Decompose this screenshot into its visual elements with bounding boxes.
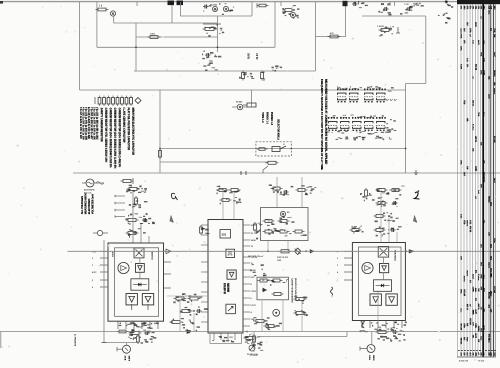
electrolytic below U3 xyxy=(367,345,375,353)
handwritten mark 2 xyxy=(415,191,420,200)
IC U3 outer box xyxy=(352,243,405,321)
cluster feed x302 xyxy=(301,177,303,208)
sidebar right edge rule xyxy=(494,4,496,357)
svg-text:mains: mains xyxy=(463,276,465,283)
IC U1 inner box xyxy=(115,248,159,316)
cluster above IC2 b xyxy=(220,199,223,201)
U2 pin stubs bottom xyxy=(213,333,215,340)
transistor in bias box xyxy=(280,211,285,216)
block C right edge xyxy=(251,2,253,16)
svg-text:BC549: BC549 xyxy=(236,101,243,104)
wire vertical x405 xyxy=(405,90,407,173)
IC3 upper cluster a xyxy=(350,229,353,231)
component left of bias box xyxy=(254,222,256,224)
svg-text:SELECTOR KNOB: SELECTOR KNOB xyxy=(277,119,280,140)
lower return line y337 xyxy=(264,336,347,338)
svg-text:AM 1k: AM 1k xyxy=(466,304,469,311)
svg-text:2 1x 220 1x 27R 1x 330 1x 10K: 2 1x 220 1x 27R 1x 330 1x 10K xyxy=(93,107,95,140)
svg-text:5%: 5% xyxy=(466,64,468,67)
U1 internal wire d xyxy=(147,304,149,310)
svg-text:CARBON RESISTOR STD. SERIES 4.: CARBON RESISTOR STD. SERIES 4.E01W 10% xyxy=(104,108,107,163)
svg-text:3362: 3362 xyxy=(150,33,156,35)
output triangle U3 left xyxy=(370,294,381,305)
stub x264 y336 xyxy=(258,336,264,338)
junction dots y47 xyxy=(135,46,137,48)
lower return rise x347 xyxy=(346,332,348,337)
svg-text:14 06: 14 06 xyxy=(251,239,257,242)
svg-text:1W: 1W xyxy=(477,339,479,342)
feed wire into IC3 top c xyxy=(396,232,398,243)
svg-text:TDA2611: TDA2611 xyxy=(151,251,154,261)
mid feed wire b xyxy=(193,313,195,332)
components below U3 xyxy=(376,331,379,333)
svg-text:FREQUENCY ADJUSTED AT FACTORY: FREQUENCY ADJUSTED AT FACTORY DO NOT DIS… xyxy=(320,79,324,170)
pin stubs into IC1 left xyxy=(115,195,125,197)
svg-text:220u: 220u xyxy=(469,28,471,33)
svg-text:dial: dial xyxy=(482,40,484,44)
left page edge line xyxy=(0,332,2,349)
components below U1 xyxy=(129,332,132,334)
bias box feed b xyxy=(287,241,289,252)
resistor right b xyxy=(294,312,297,314)
audio bus y148 xyxy=(160,148,405,150)
svg-text:5/W 8: 5/W 8 xyxy=(128,356,130,362)
upper cluster b xyxy=(296,189,299,191)
svg-text:0.5W: 0.5W xyxy=(460,64,462,69)
wire x378 vertical xyxy=(377,292,379,332)
svg-text:FM 98: FM 98 xyxy=(474,64,476,71)
bias diode box U3 xyxy=(374,280,392,292)
squiggle mark x331 xyxy=(331,287,333,296)
svg-text:38/05: 38/05 xyxy=(247,53,250,60)
wire box to bus c xyxy=(301,301,303,332)
IC3 upper cluster d xyxy=(374,215,377,217)
svg-text:5 1V1: 5 1V1 xyxy=(251,305,257,307)
main bus y251 xyxy=(68,250,500,252)
svg-text:1W: 1W xyxy=(487,353,489,356)
svg-text:1W: 1W xyxy=(466,323,468,326)
feed wire into IC3 top b xyxy=(388,218,390,243)
block C left edge xyxy=(179,2,181,16)
transistor pair in block C xyxy=(212,6,217,11)
U2 pin stubs left xyxy=(201,224,208,226)
scan speckle noise xyxy=(202,73,203,74)
resistor R? on y36 xyxy=(328,36,331,38)
svg-text:A. FM(1000): A. FM(1000) xyxy=(74,334,77,347)
component x125 y181 xyxy=(121,180,124,182)
wire vertical x251 xyxy=(251,90,253,107)
socket row2 right tag xyxy=(386,123,388,124)
svg-text:CARBON RESISTOR (DO-I SERIES): CARBON RESISTOR (DO-I SERIES) E24M 5.1W5… xyxy=(109,108,112,169)
component left of IC1 top xyxy=(97,230,102,235)
feed wire into IC1 top a xyxy=(132,192,134,243)
svg-text:RECORD 150 mV: RECORD 150 mV xyxy=(248,256,264,258)
svg-text:1W: 1W xyxy=(480,353,482,356)
svg-text:4 1x 100 1x 680 1x 680 1x 2K2: 4 1x 100 1x 680 1x 680 1x 2K2 xyxy=(95,107,98,140)
resistor in S1 xyxy=(257,148,260,150)
svg-text:100n: 100n xyxy=(460,160,462,165)
wire step y83 xyxy=(406,83,426,85)
sidebar column rules xyxy=(457,4,459,357)
svg-text:CARBON RESISTOR (DO-I SERIES): CARBON RESISTOR (DO-I SERIES) 0.5W (1.4W… xyxy=(118,108,121,168)
arrow out right U3 xyxy=(409,250,414,254)
svg-text:TAPE 1-3: TAPE 1-3 xyxy=(261,112,264,123)
wire bus y36 right xyxy=(316,36,347,38)
main bus y331 xyxy=(0,331,500,333)
svg-text:AUX/TAPE: AUX/TAPE xyxy=(84,189,95,192)
svg-text:1W: 1W xyxy=(472,353,474,356)
arrow on y251 x310 xyxy=(310,250,314,254)
svg-text:TDA: TDA xyxy=(480,52,483,57)
svg-text:8 ohm: 8 ohm xyxy=(472,124,474,130)
svg-text:70 512: 70 512 xyxy=(478,361,485,363)
resistor right a xyxy=(294,298,297,300)
IC U1 outer box xyxy=(108,243,164,321)
component x415 top xyxy=(419,3,421,4)
component row mid c xyxy=(170,321,173,323)
cluster left of IC2 top xyxy=(200,225,202,227)
resistor on bus y331 left xyxy=(117,331,120,333)
svg-text:222: 222 xyxy=(222,233,227,237)
svg-text:MINIATURE ELECTROLYTIC CAPACIT: MINIATURE ELECTROLYTIC CAPACITOR xyxy=(131,108,134,156)
U3 pin stubs left xyxy=(344,250,352,252)
block C bottom edge xyxy=(180,15,252,17)
svg-text:C8 50: C8 50 xyxy=(255,53,258,60)
resistor pair below y71 bus xyxy=(242,71,244,73)
svg-text:DOLBY-B: DOLBY-B xyxy=(223,283,226,294)
component row mid b xyxy=(180,310,183,312)
svg-text:C 22: C 22 xyxy=(404,4,409,6)
bias diode box U1 xyxy=(131,279,149,290)
trimmer below U2 xyxy=(249,345,255,351)
wire vertical x172 xyxy=(171,2,173,23)
resistors in bias box b xyxy=(263,231,266,233)
block D right edge xyxy=(425,16,427,84)
block D top edge xyxy=(362,15,426,17)
wire x104 vertical xyxy=(103,240,105,343)
component cluster above IC1 a xyxy=(127,188,130,190)
level diamond on y251 xyxy=(295,248,301,254)
legend symbol row xyxy=(98,98,101,105)
sidebar bottom rule xyxy=(457,356,496,358)
svg-text:220u: 220u xyxy=(480,70,482,75)
wire vertical x136 xyxy=(135,23,137,71)
resistor on y251 a xyxy=(279,250,282,252)
svg-text:220u: 220u xyxy=(493,238,495,243)
svg-text:mains: mains xyxy=(466,220,468,227)
svg-text:12V: 12V xyxy=(460,256,462,260)
resistors in feedback box xyxy=(258,280,261,282)
U1 pin stubs left xyxy=(100,250,108,252)
feed wire into IC1 top c xyxy=(148,236,150,243)
output triangle U1 left xyxy=(126,294,137,305)
svg-text:100n: 100n xyxy=(463,323,465,328)
svg-text:PLATE CERAMIC CAPACITOR: PLATE CERAMIC CAPACITOR xyxy=(122,108,125,143)
svg-text:1600: 1600 xyxy=(277,260,281,262)
transformer cluster top mid xyxy=(283,9,286,11)
svg-text:mains: mains xyxy=(487,262,489,269)
top-left page mark xyxy=(0,1,3,4)
connector top blobs xyxy=(168,1,175,6)
IC3 upper cluster c xyxy=(376,202,379,204)
cluster below y251 mid xyxy=(263,275,265,276)
svg-text:560R: 560R xyxy=(472,287,474,292)
svg-text:3.5 W/15: 3.5 W/15 xyxy=(250,355,258,357)
IC socket row 1 xyxy=(337,89,338,91)
svg-text:mains: mains xyxy=(466,270,468,277)
capacitor C? in block D xyxy=(383,8,385,10)
wire step vertical xyxy=(405,84,407,91)
resistor in feedback box b xyxy=(272,293,275,295)
svg-text:FOR CD 470: FOR CD 470 xyxy=(277,256,288,259)
U1 internal wire b xyxy=(139,272,141,279)
diode in feedback box xyxy=(262,288,267,292)
component cluster above IC1 b xyxy=(135,196,137,198)
sidebar header band xyxy=(457,0,500,4)
U3 pin stubs bottom xyxy=(361,321,363,329)
wire x128 to bus xyxy=(126,343,128,346)
junction x160 y148 xyxy=(159,148,161,150)
svg-text:4 RC: 4 RC xyxy=(92,271,97,274)
resistor R? top-left cluster xyxy=(96,9,99,11)
svg-text:100n: 100n xyxy=(474,323,476,328)
svg-text:100n: 100n xyxy=(480,274,482,279)
svg-text:PHONO 1-2: PHONO 1-2 xyxy=(270,112,273,126)
svg-text:7 2V2: 7 2V2 xyxy=(251,291,257,293)
bias network box xyxy=(261,208,309,241)
wire vertical feed xyxy=(96,2,98,47)
mid feed wire a xyxy=(179,301,181,332)
plug connector M2 xyxy=(247,103,256,107)
svg-text:TDA: TDA xyxy=(493,28,496,33)
svg-text:NE645: NE645 xyxy=(460,338,463,345)
switch contact in S1 xyxy=(272,147,280,152)
arrow on y251 x167 xyxy=(163,250,165,252)
mute stage X-box U3 xyxy=(378,247,389,258)
cluster feed x277 xyxy=(276,177,278,208)
wire vertical left rail xyxy=(79,2,81,90)
U3 internal wire a xyxy=(383,257,385,263)
pin end x104 xyxy=(102,342,107,344)
upper cluster a xyxy=(271,188,274,190)
svg-text:VOLTMETER 3mV: VOLTMETER 3mV xyxy=(92,194,95,215)
svg-text:8021: 8021 xyxy=(111,252,113,258)
svg-text:TDA: TDA xyxy=(460,34,463,39)
motor circle M1 xyxy=(273,309,280,316)
pulse shaper box U2 xyxy=(226,249,235,257)
junction y148 x405 xyxy=(405,148,407,150)
svg-text:BC548: BC548 xyxy=(460,324,463,331)
top border bus line xyxy=(0,1,458,3)
loop below U2 left xyxy=(209,333,211,344)
junction dots on y148 xyxy=(291,148,293,150)
feed wire into IC3 top a xyxy=(380,192,382,243)
svg-text:BC548: BC548 xyxy=(463,290,466,297)
component top x258 xyxy=(257,5,260,7)
U1 internal wire a xyxy=(139,258,141,264)
svg-text:8 ohm: 8 ohm xyxy=(477,274,479,280)
pen mark triangle 2 xyxy=(413,216,417,223)
transistor Q? x240 xyxy=(237,104,243,110)
svg-text:12V: 12V xyxy=(482,58,484,62)
svg-text:4 822 218: 4 822 218 xyxy=(459,360,469,363)
IC U2 outer box xyxy=(208,220,243,334)
resistor cluster between buses xyxy=(203,28,206,30)
component cluster above y71 xyxy=(203,65,205,66)
wire x371 to bus xyxy=(371,332,373,346)
wire bus y23 xyxy=(114,22,218,24)
svg-text:TDA: TDA xyxy=(463,220,466,225)
svg-text:AM 1k: AM 1k xyxy=(474,136,477,143)
U1 internal wire c xyxy=(131,304,133,310)
wire stub x394 xyxy=(394,2,396,6)
svg-text:FLAT FOIL POLYESTER CAPACITOR: FLAT FOIL POLYESTER CAPACITOR xyxy=(127,108,130,151)
wire vertical x315 xyxy=(315,2,317,71)
component on y173 x243 xyxy=(240,171,242,175)
return wire x139 up xyxy=(138,332,140,343)
component on x160 xyxy=(159,149,161,151)
resistors in bias box a xyxy=(263,220,266,222)
resistor network below block D xyxy=(379,29,382,31)
svg-text:SAFETY CARBON RESISTOR: SAFETY CARBON RESISTOR xyxy=(100,108,103,142)
svg-text:2.8 A: 2.8 A xyxy=(368,355,371,360)
component cluster above IC1 d xyxy=(126,232,129,234)
diode on bus y331 left xyxy=(132,330,137,333)
output triangle U1 right xyxy=(142,294,153,305)
svg-text:100n: 100n xyxy=(482,178,484,183)
svg-text:560R: 560R xyxy=(472,310,474,315)
input stage circle U1 xyxy=(118,262,129,273)
legend diamond symbol xyxy=(135,98,141,104)
wire bus y71 xyxy=(134,70,316,72)
wire bus y47 xyxy=(97,46,275,48)
preamp triangle U3 xyxy=(380,264,389,273)
svg-text:elco: elco xyxy=(487,338,489,343)
svg-text:560R: 560R xyxy=(474,166,476,171)
svg-text:12V: 12V xyxy=(490,309,492,313)
feed wire into IC2 top a xyxy=(222,192,224,220)
svg-text:TDA: TDA xyxy=(477,112,480,117)
mid bus y296 xyxy=(167,295,208,297)
svg-text:RADIO 1-1: RADIO 1-1 xyxy=(266,112,269,124)
amp triangle U2 xyxy=(227,270,236,279)
cluster left low a xyxy=(254,320,257,322)
tick x137 xyxy=(136,2,138,6)
svg-text:1W: 1W xyxy=(477,288,479,291)
cluster right x362 xyxy=(365,188,367,190)
svg-text:0 1x 272 1x 47K 1x 600 1x 27R: 0 1x 272 1x 47K 1x 600 1x 27R xyxy=(84,107,87,140)
wire stub x281 xyxy=(280,2,282,6)
wire stub xyxy=(113,16,115,23)
svg-text:220u: 220u xyxy=(460,46,462,51)
signal source G1 xyxy=(86,179,94,187)
loop below U2 right xyxy=(241,333,243,344)
components below U2 xyxy=(244,337,247,339)
feed wire into IC1 top b xyxy=(140,224,142,243)
svg-text:TDA: TDA xyxy=(463,100,466,105)
cluster above IC2 a xyxy=(217,189,220,191)
wire bus y37 xyxy=(136,36,218,38)
wire stub x390 xyxy=(389,2,391,6)
svg-text:560R: 560R xyxy=(482,70,484,75)
component cluster x272 xyxy=(274,70,276,72)
bias box feed a xyxy=(267,241,269,252)
connector blobs x345 xyxy=(343,1,348,6)
U1 pin stubs bottom xyxy=(117,321,119,329)
svg-text:NE645B: NE645B xyxy=(226,283,229,292)
wire box to bus a xyxy=(261,300,263,332)
legend bracket xyxy=(94,97,96,104)
cluster left low b xyxy=(264,325,267,327)
IC U3 inner box xyxy=(359,247,402,316)
diode cluster mid-right xyxy=(445,22,448,24)
svg-text:elco: elco xyxy=(487,10,489,15)
IC socket row 2 xyxy=(328,117,329,119)
long bus y173 xyxy=(73,172,500,174)
svg-text:1W: 1W xyxy=(463,353,465,356)
svg-text:CARBON RESISTOR (DO-I SERIES): CARBON RESISTOR (DO-I SERIES) 0.25W (1.4… xyxy=(113,108,116,170)
svg-text:AM 1k: AM 1k xyxy=(472,100,475,107)
capacitor C? in block D 2 xyxy=(406,8,408,10)
svg-text:1W: 1W xyxy=(466,166,468,169)
resistor below y162 xyxy=(266,162,269,164)
handwritten mark G xyxy=(171,193,177,200)
IC3 upper cluster b xyxy=(376,189,379,191)
switch box S1 (dashed) xyxy=(256,142,291,156)
svg-text:FM 98: FM 98 xyxy=(469,226,471,233)
return wire y342 below U1 xyxy=(103,342,139,344)
long bus y90 xyxy=(80,89,406,91)
wire vertical x275 xyxy=(274,2,276,47)
wire box to bus b xyxy=(282,300,284,332)
svg-text:NE645: NE645 xyxy=(493,70,496,77)
capacitor C? x205 xyxy=(203,6,205,8)
wire vertical x160 xyxy=(159,90,161,173)
resistor R? on y37 bus xyxy=(148,36,151,38)
loop below U2 bottom xyxy=(210,343,242,345)
input stage circle U3 xyxy=(362,262,373,273)
preamp triangle U1 xyxy=(136,264,145,273)
junctions y251 xyxy=(267,250,269,252)
component row mid a xyxy=(174,298,177,300)
component cluster above IC1 c xyxy=(126,219,129,221)
component below bus x254 xyxy=(253,332,255,353)
feedback network box xyxy=(257,277,289,300)
svg-text:12V: 12V xyxy=(487,232,489,236)
wire vertical x217 xyxy=(217,16,219,52)
detector box U2 xyxy=(226,304,236,314)
svg-text:100n: 100n xyxy=(460,289,462,294)
diode row mid xyxy=(186,330,191,334)
pen mark triangle xyxy=(170,216,174,223)
U1 pin stubs right xyxy=(164,250,172,252)
U2 pin stubs right xyxy=(243,224,250,226)
ground sym near x418 y173 xyxy=(415,170,417,173)
svg-text:elco: elco xyxy=(460,308,462,313)
electrolytic below U1 xyxy=(123,345,131,353)
feed wire into IC2 top b xyxy=(233,192,235,220)
sidebar dashed separator row xyxy=(458,350,460,352)
socket row1 tail xyxy=(386,99,397,101)
svg-text:CASSETTE MECHANISM: CASSETTE MECHANISM xyxy=(291,278,294,303)
svg-text:1-6336: 1-6336 xyxy=(377,26,385,28)
logic box U2 xyxy=(220,230,231,239)
mute stage X-box U1 xyxy=(134,248,144,258)
wire vertical x345 xyxy=(345,2,347,37)
output triangle U3 right xyxy=(386,294,397,305)
junction below U2 xyxy=(246,331,248,333)
svg-text:mains: mains xyxy=(493,88,495,95)
